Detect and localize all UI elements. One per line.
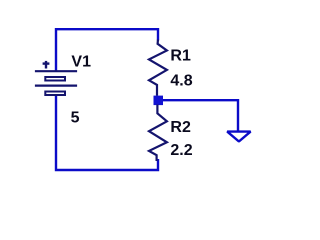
resistor R2 bbox=[149, 105, 167, 162]
ground bbox=[227, 132, 250, 142]
svg-text:2.2: 2.2 bbox=[170, 142, 192, 159]
svg-text:V1: V1 bbox=[71, 53, 91, 70]
wire: bottom horizontal (V1 minus to R2) bbox=[56, 96, 158, 170]
svg-text:5: 5 bbox=[71, 109, 80, 126]
wire: top horizontal (V1 plus to R1) bbox=[56, 29, 158, 71]
wire: node to ground bbox=[163, 100, 238, 131]
node junction bbox=[154, 96, 164, 106]
svg-text:R1: R1 bbox=[170, 48, 191, 65]
svg-text:R2: R2 bbox=[170, 119, 191, 136]
resistor R1 bbox=[149, 40, 167, 96]
battery V1 polarity mark bbox=[43, 61, 50, 69]
svg-text:4.8: 4.8 bbox=[170, 72, 192, 89]
battery V1 bbox=[35, 71, 77, 95]
